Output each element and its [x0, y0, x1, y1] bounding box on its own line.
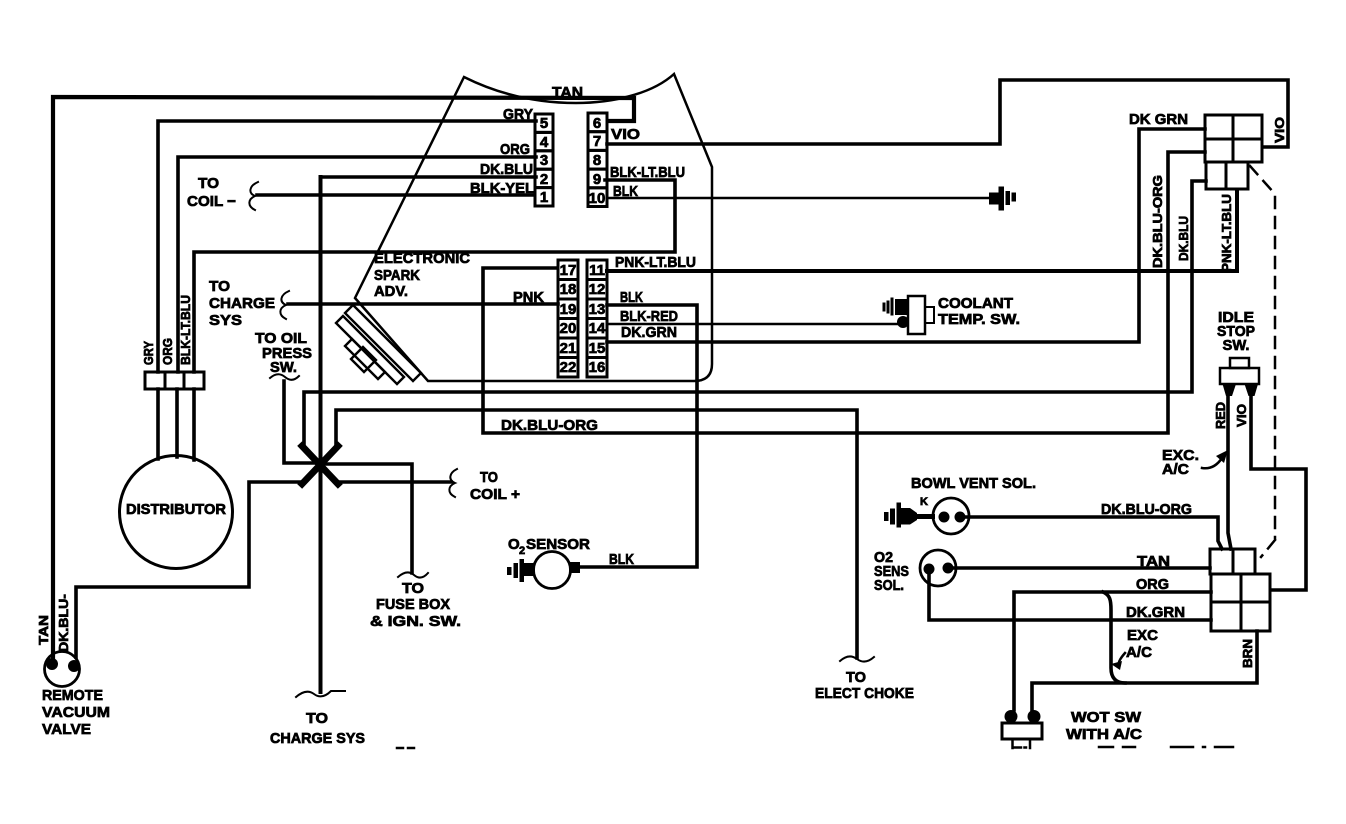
wire TAN o2 sens sol to block — [953, 566, 1210, 570]
svg-text:DK.BLU: DK.BLU — [1176, 216, 1191, 261]
WOT switch — [1002, 710, 1042, 748]
svg-text:ORG: ORG — [500, 141, 530, 158]
wire PNK pin19 to charge sys brace — [288, 302, 558, 306]
svg-text:TO: TO — [209, 278, 230, 295]
svg-text:BLK: BLK — [609, 551, 634, 568]
svg-text:DK.BLU-ORG: DK.BLU-ORG — [501, 417, 598, 434]
arrow EXC A/C upper — [1202, 458, 1222, 468]
wire DK.GRN o2 sens sol to block — [929, 574, 1211, 620]
svg-text:7: 7 — [593, 133, 601, 150]
svg-text:DISTRIBUTOR: DISTRIBUTOR — [126, 502, 227, 518]
svg-text:ELECT CHOKE: ELECT CHOKE — [815, 685, 914, 702]
svg-text:TO: TO — [402, 580, 424, 597]
top connector left column pins 5-1 — [535, 114, 553, 206]
svg-text:COOLANT: COOLANT — [938, 295, 1013, 312]
svg-text:CHARGE: CHARGE — [209, 295, 275, 312]
svg-text:BLK: BLK — [620, 289, 643, 306]
svg-text:1: 1 — [540, 189, 548, 206]
svg-text:DK.GRN: DK.GRN — [621, 324, 677, 341]
svg-text:CHARGE SYS: CHARGE SYS — [270, 730, 365, 747]
svg-text:9: 9 — [593, 171, 601, 188]
svg-text:GRY: GRY — [503, 106, 533, 123]
svg-text:17: 17 — [560, 262, 577, 279]
wire PNK-LT.BLU pin11 to lower-right of upper connector — [607, 191, 1237, 271]
wire BLK pin13 down to O2 sensor — [577, 305, 697, 567]
wire VIO idle stop to bottom block right — [1251, 392, 1306, 590]
svg-text:PNK: PNK — [513, 289, 544, 306]
svg-text:13: 13 — [589, 301, 606, 318]
svg-text:14: 14 — [589, 320, 606, 337]
brace TO COIL- — [249, 182, 258, 210]
svg-text:VALVE: VALVE — [42, 721, 91, 738]
O2 sens sol circle — [920, 550, 956, 586]
wire VIO pin7 stepped to top-right connector — [607, 80, 1288, 147]
svg-text:TEMP. SW.: TEMP. SW. — [938, 311, 1020, 328]
brace TO COIL+ — [449, 469, 457, 497]
svg-text:REMOTE: REMOTE — [42, 687, 103, 704]
wire main vertical DK.BLU through X junction to charge sys — [319, 177, 323, 692]
O2 sensor left plug — [507, 559, 535, 582]
bowl vent solenoid — [933, 498, 969, 534]
svg-text:WITH A/C: WITH A/C — [1066, 726, 1142, 743]
svg-text:TAN: TAN — [552, 84, 583, 101]
svg-text:11: 11 — [589, 262, 605, 279]
wire ORG pin3 to left block — [177, 157, 536, 457]
dashed boundary line — [1250, 166, 1275, 557]
svg-text:10: 10 — [589, 190, 606, 207]
svg-text:VIO: VIO — [1272, 117, 1287, 143]
O2 sensor circle — [534, 552, 571, 589]
distributor — [120, 456, 233, 569]
svg-text:EXC: EXC — [1127, 627, 1158, 644]
wire DK.BLU pin2 to main vertical — [321, 175, 536, 179]
arrow EXC A/C lower — [1119, 653, 1125, 666]
svg-text:SENSOR: SENSOR — [526, 536, 590, 553]
svg-text:21: 21 — [560, 340, 577, 357]
svg-text:18: 18 — [560, 281, 577, 298]
svg-text:SPARK: SPARK — [374, 267, 420, 284]
svg-text:PNK-LT.BLU: PNK-LT.BLU — [615, 254, 696, 271]
svg-text:A/C: A/C — [1126, 644, 1152, 661]
hook TO OIL PRESS SW — [270, 374, 299, 380]
svg-text:BRN: BRN — [1240, 639, 1255, 668]
svg-text:12: 12 — [589, 281, 606, 298]
hook TO CHARGE SYS bottom — [296, 691, 345, 697]
svg-text:TO: TO — [198, 175, 219, 192]
node ECU outline (spark control computer) — [355, 74, 712, 381]
svg-text:TO: TO — [306, 710, 328, 727]
bowl vent left plug — [884, 503, 935, 528]
svg-text:DK.BLU-ORG: DK.BLU-ORG — [1150, 175, 1165, 268]
svg-text:RED: RED — [1213, 402, 1228, 429]
wire BLK-RED pin14 to coolant temp switch — [607, 323, 900, 326]
svg-text:BLK-LT.BLU: BLK-LT.BLU — [610, 164, 685, 181]
wire GRY pin5 to left block — [158, 121, 536, 459]
junction X splice — [302, 446, 338, 484]
svg-text:WOT SW: WOT SW — [1071, 709, 1142, 726]
svg-text:TO: TO — [846, 669, 866, 686]
svg-text:8: 8 — [593, 152, 601, 169]
svg-text:DK GRN: DK GRN — [1129, 111, 1188, 128]
svg-text:BOWL VENT SOL.: BOWL VENT SOL. — [911, 475, 1036, 492]
brace TO CHARGE SYS — [280, 291, 289, 319]
svg-text:TO: TO — [480, 469, 498, 486]
svg-text:6: 6 — [593, 115, 601, 132]
left 3-cell connector block — [145, 372, 204, 389]
svg-text:ADV.: ADV. — [374, 283, 408, 300]
wire DK.BLU-ORG bowl vent to block — [966, 517, 1222, 549]
svg-text:BLK-RED: BLK-RED — [620, 308, 678, 325]
wire X to coil plus — [338, 480, 451, 484]
svg-text:VIO: VIO — [611, 126, 640, 143]
svg-text:A/C: A/C — [1162, 461, 1189, 478]
wire to elect choke from X junction — [336, 410, 857, 658]
wire DK.BLU bus X junction to lower-right connector — [304, 181, 1206, 448]
svg-text:2: 2 — [519, 545, 525, 557]
svg-text:20: 20 — [560, 320, 577, 337]
top right connector block 2x2 — [1205, 115, 1262, 189]
lower connector right column pins 11-16 — [587, 260, 607, 377]
svg-text:ORG: ORG — [1136, 576, 1169, 593]
svg-text:COIL −: COIL − — [187, 193, 236, 210]
svg-text:GRY: GRY — [141, 341, 156, 365]
svg-text:DK.BLU-ORG: DK.BLU-ORG — [1101, 501, 1192, 518]
wire X to fuse box — [322, 464, 412, 573]
svg-text:FUSE BOX: FUSE BOX — [376, 596, 450, 613]
svg-text:ORG: ORG — [160, 338, 175, 365]
connector plug at end of BLK wire — [989, 187, 1016, 211]
svg-text:16: 16 — [589, 359, 606, 376]
wire RED idle stop to bottom block — [1228, 392, 1231, 549]
svg-text:K: K — [920, 496, 928, 508]
coolant temp switch — [884, 296, 934, 334]
svg-text:4: 4 — [540, 134, 549, 151]
svg-text:SYS: SYS — [209, 312, 242, 329]
wire BLK pin10 to body plug — [607, 197, 990, 200]
svg-text:BLK: BLK — [613, 183, 638, 200]
wire ORG block to WOT switch — [1014, 592, 1211, 710]
svg-text:DK.BLU: DK.BLU — [480, 161, 533, 178]
svg-text:ELECTRONIC: ELECTRONIC — [374, 250, 470, 267]
svg-text:BLK-YEL: BLK-YEL — [470, 180, 534, 197]
hook TO ELECT CHOKE — [840, 656, 874, 661]
bottom right connector: upper 1x2 block — [1210, 549, 1270, 631]
dashes under WOT SW — [397, 747, 1233, 748]
svg-text:SW.: SW. — [1223, 337, 1250, 354]
svg-text:2: 2 — [540, 171, 548, 188]
svg-text:15: 15 — [589, 340, 606, 357]
wire DK.GRN pin15 up to top-right connector — [607, 129, 1205, 342]
svg-text:TAN: TAN — [1137, 553, 1170, 570]
svg-text:3: 3 — [540, 152, 548, 169]
wire X to remote vacuum valve — [76, 482, 304, 657]
wire DK.BLU-ORG pin17 down and right up to top-right connector — [483, 152, 1205, 433]
svg-text:VIO: VIO — [1234, 404, 1249, 427]
svg-text:DK.BLU-: DK.BLU- — [56, 594, 71, 652]
svg-text:SW.: SW. — [270, 359, 297, 376]
idle stop switch — [1220, 358, 1259, 396]
remote vacuum valve — [45, 652, 80, 687]
svg-text:TAN: TAN — [36, 615, 51, 645]
wire EXC A/C bypass — [1103, 592, 1125, 683]
wire BLK-YEL pin1 to coil minus brace — [257, 193, 534, 197]
hook TO FUSE BOX — [398, 572, 428, 577]
svg-text:DK.GRN: DK.GRN — [1126, 604, 1185, 621]
svg-text:SOL.: SOL. — [874, 577, 904, 594]
top connector right column pins 6-10 — [588, 113, 607, 207]
svg-text:PNK-LT.BLU: PNK-LT.BLU — [1219, 194, 1234, 272]
svg-text:& IGN. SW.: & IGN. SW. — [370, 613, 461, 630]
svg-text:5: 5 — [540, 115, 548, 132]
O2 sensor right terminal — [569, 562, 580, 573]
lower connector left column pins 17-22 — [558, 260, 578, 377]
wire BLK-LT.BLU pin9 right down and back left to block — [194, 180, 675, 460]
wire WOT right terminal to BRN — [1032, 631, 1257, 710]
svg-text:COIL +: COIL + — [470, 486, 520, 503]
wire TAN from top-left to pin 6 — [53, 97, 634, 657]
svg-text:VACUUM: VACUUM — [42, 704, 110, 721]
wire TO OIL PRESS SW down to X — [284, 381, 318, 463]
svg-text:19: 19 — [560, 301, 577, 318]
svg-text:BLK-LT.BLU: BLK-LT.BLU — [178, 295, 193, 365]
electronic spark adv component diagonal bars — [336, 305, 421, 384]
svg-text:22: 22 — [560, 359, 577, 376]
